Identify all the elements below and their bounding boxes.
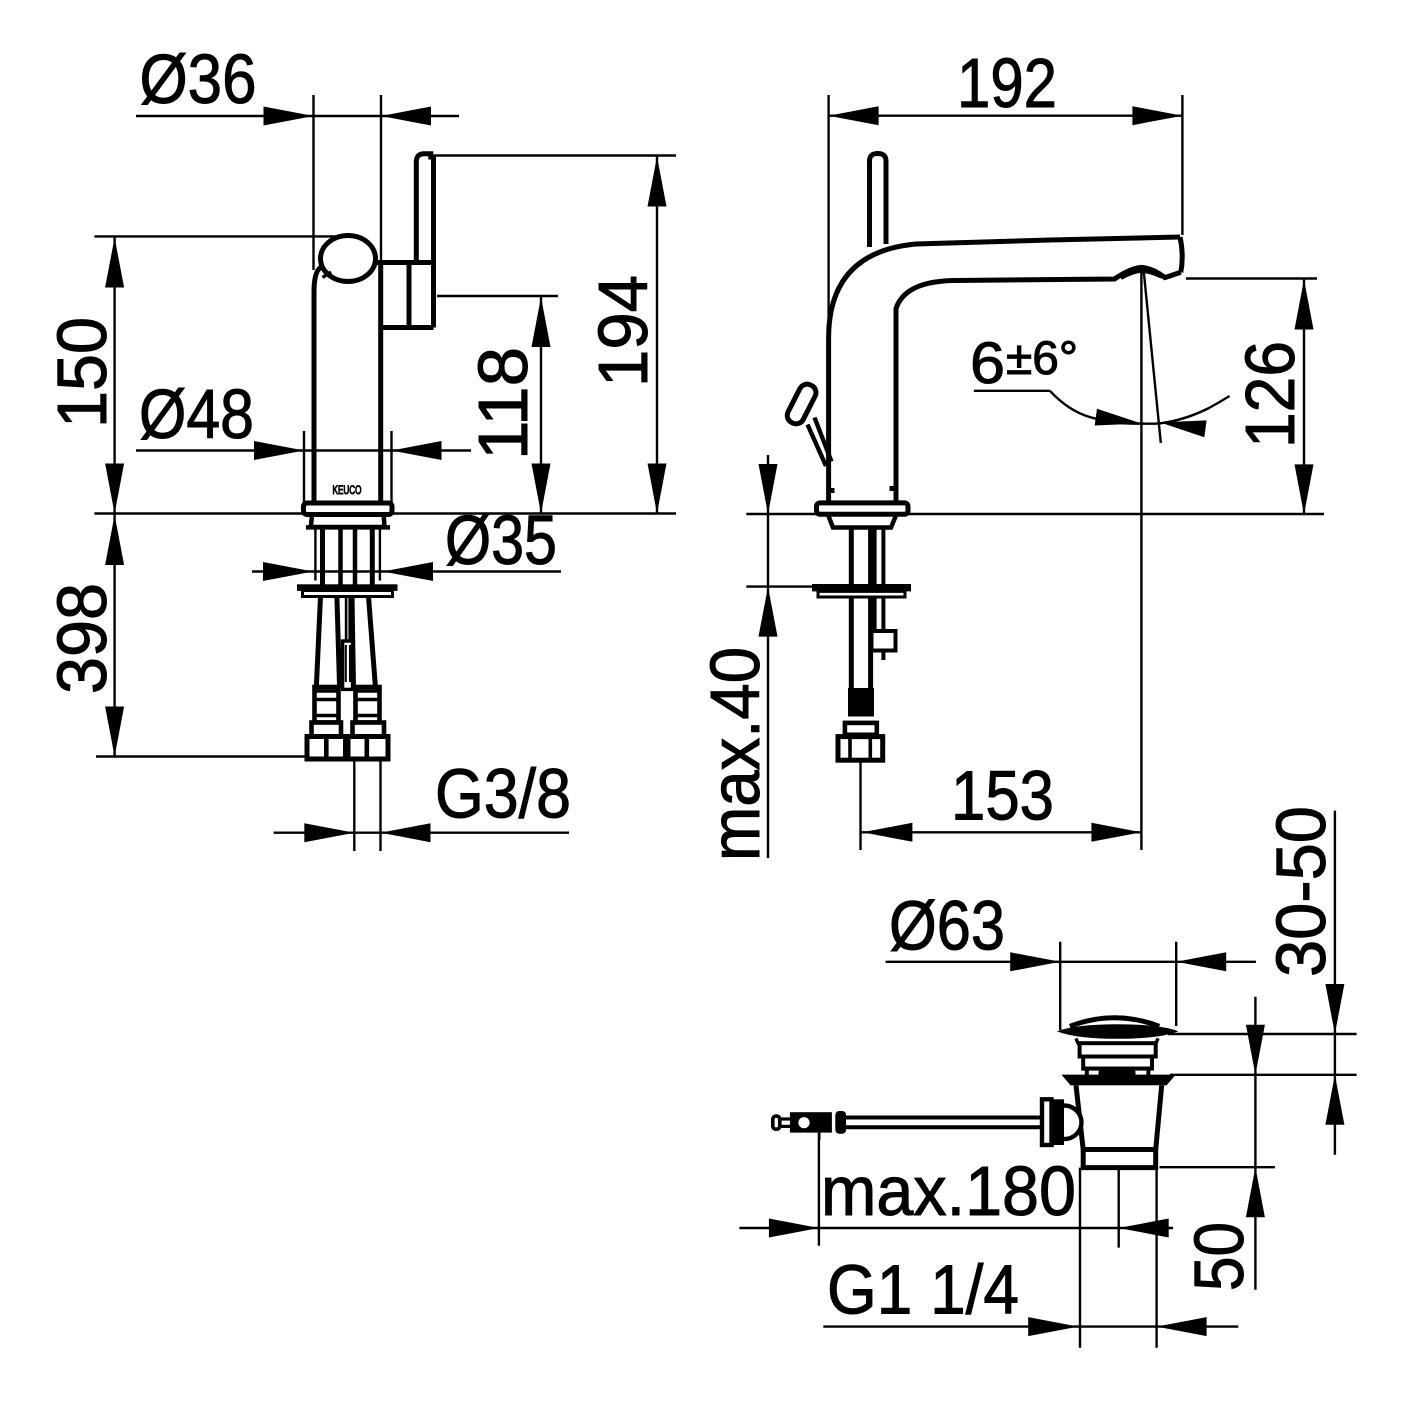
angle leader (974, 390, 1050, 392)
stream vertical line (1140, 270, 1142, 850)
arrow 398 top (105, 515, 124, 565)
dim line Ø48 (136, 449, 471, 451)
handle bar front (416, 154, 433, 328)
angle arc left seg (1092, 418, 1141, 424)
hose right nut (348, 737, 388, 760)
hose right cone (353, 723, 385, 737)
svg-text:30-50: 30-50 (1262, 806, 1340, 977)
spout end face (1180, 237, 1182, 272)
svg-text:192: 192 (957, 44, 1057, 122)
svg-text:118: 118 (464, 347, 542, 460)
svg-text:±6°: ±6° (1006, 331, 1078, 384)
mixer lever grip (784, 381, 818, 426)
ext line Ø35 left (314, 529, 316, 581)
base flange side (817, 503, 909, 514)
drain cap dome (1070, 1018, 1159, 1027)
arrow G3/8 left (304, 823, 354, 842)
dim line 118 (540, 296, 542, 514)
arrow Ø48 left (254, 441, 304, 460)
ext line max180 left (818, 1133, 820, 1246)
ext line Ø63 right (1175, 942, 1177, 1026)
arrow Ø35 left (263, 562, 313, 581)
svg-text:G1 1/4: G1 1/4 (827, 1251, 1019, 1329)
angle arc right seg (1160, 408, 1209, 423)
shank pipe side (849, 529, 854, 688)
drain neck c2 (1083, 1057, 1152, 1069)
drain neck c1 (1080, 1043, 1156, 1056)
handle rod side (870, 154, 887, 248)
spout underside (896, 267, 1181, 487)
svg-text:Ø35: Ø35 (445, 501, 557, 579)
arrow Ø63 right (1176, 952, 1226, 971)
svg-text:Ø48: Ø48 (139, 375, 254, 453)
faucet head dome (321, 236, 376, 282)
pull rod inner (345, 645, 347, 682)
arrow G1 right (1157, 1317, 1207, 1336)
arrow 30-50 bottom (1325, 1075, 1344, 1125)
ext line 118 top (437, 295, 558, 297)
arrow G1 left (1028, 1317, 1078, 1336)
dim line Ø36 (136, 115, 459, 117)
ext line 50 bottom (1160, 1166, 1275, 1168)
drain seal lip (1099, 1069, 1136, 1077)
ext line 194 top (434, 154, 676, 156)
ext line G3/8 right (379, 759, 381, 851)
arrow 118 bottom (532, 464, 551, 514)
lever collar (835, 1111, 846, 1134)
dim line 398 (113, 514, 115, 757)
hose right ferrule (356, 687, 380, 723)
base collar front (311, 517, 385, 527)
ref line hose bottom (96, 755, 308, 757)
arrow 398 bottom (105, 707, 124, 757)
base collar side (828, 514, 897, 527)
body right edge (378, 263, 383, 504)
ext line 30-50 top (1168, 1033, 1357, 1035)
arrow Ø48 right (392, 441, 442, 460)
hose left nut (307, 737, 346, 760)
arrow 50 top (1246, 1025, 1265, 1075)
hose left ferrule (315, 687, 339, 723)
svg-text:6: 6 (970, 331, 1005, 396)
dim line 30-50 (1334, 811, 1336, 1155)
spout outer profile (829, 237, 1180, 488)
dim line 192 (829, 114, 1183, 116)
drain body line (1083, 1148, 1156, 1152)
arrow 50 bottom (1246, 1167, 1265, 1217)
body-to-base left (826, 488, 831, 504)
arrow 30-50 top (1325, 984, 1344, 1034)
ext line max40 bottom (746, 585, 812, 587)
svg-text:50: 50 (1180, 1222, 1258, 1291)
arrow max180 right (1119, 1219, 1169, 1238)
arrow 153 left (862, 823, 912, 842)
drain neck c3 (1087, 1069, 1149, 1077)
arrow max180 left (769, 1219, 819, 1238)
pivot plate (1042, 1099, 1052, 1145)
angle arrow right (1160, 420, 1207, 437)
drain centerline (1117, 1168, 1119, 1248)
arrow 126 top (1295, 280, 1314, 330)
arrow 150 top (105, 238, 124, 288)
svg-text:max.40: max.40 (696, 647, 774, 861)
hose left outer (316, 597, 320, 689)
arrow max40 bottom (759, 587, 778, 637)
svg-text:126: 126 (1231, 341, 1309, 448)
mixer lever stem (808, 425, 827, 467)
arrow 126 bottom (1295, 464, 1314, 514)
arrow 194 top (648, 157, 667, 207)
base step tick left (829, 488, 835, 493)
clamp bracket (872, 631, 896, 651)
hose left inner (337, 597, 340, 689)
ext line Ø36 left (312, 95, 314, 270)
arrow 153 right (1091, 823, 1141, 842)
body left edge (314, 268, 321, 504)
svg-text:G3/8: G3/8 (435, 755, 571, 833)
drain cap under (1076, 1038, 1158, 1043)
svg-text:398: 398 (43, 583, 121, 694)
arrow 150 bottom (105, 464, 124, 514)
hose right inner (352, 597, 354, 689)
pull rod wires (345, 597, 348, 643)
angle arc (1050, 391, 1230, 424)
drain cap rim (1057, 1024, 1179, 1039)
body-to-base right (894, 488, 899, 504)
dim line 194 (656, 156, 658, 514)
ext line G3/8 left (353, 759, 355, 851)
supply nut side (838, 737, 883, 761)
baseline side right (908, 513, 1324, 515)
stream angled line (1144, 270, 1161, 443)
angle arrow left (1095, 409, 1142, 426)
ext line Ø36 right (380, 95, 382, 262)
shank tube right (370, 529, 375, 586)
base flange front (304, 503, 393, 515)
ext line Ø48 right (390, 431, 392, 503)
ext line 30-50 bottom (1170, 1074, 1357, 1076)
threaded section (848, 688, 874, 717)
baseline side left (746, 513, 816, 515)
supply collar side (845, 723, 877, 735)
aerator inner arc (1121, 271, 1162, 278)
ext line G1 right (1155, 1168, 1157, 1348)
arrow Ø36 left (264, 107, 314, 126)
handle hub front (407, 263, 412, 328)
arrow G3/8 right (381, 823, 431, 842)
dome shoulder tick (323, 272, 332, 278)
arrow 118 top (532, 297, 551, 347)
dim line max180 (739, 1227, 1173, 1229)
hose right outer (369, 597, 376, 689)
shank inner left (338, 529, 343, 586)
svg-text:max.180: max.180 (821, 1152, 1076, 1230)
svg-text:153: 153 (951, 757, 1054, 835)
dim line 153 (861, 831, 1142, 833)
ext line Ø63 left (1059, 942, 1061, 1030)
ext line 150 top (94, 235, 344, 237)
dim line 150 (113, 237, 115, 514)
hose left cone (312, 723, 342, 737)
lever neck (780, 1117, 794, 1120)
washer plate lower (303, 591, 393, 597)
lever ext tick (818, 1133, 820, 1140)
arrow Ø35 right (383, 562, 433, 581)
ext line 192 left (827, 95, 829, 330)
pull rod body (343, 641, 353, 689)
arrow 192 left (829, 106, 879, 125)
arrow Ø63 left (1010, 952, 1060, 971)
dim line 50 (1254, 997, 1256, 1290)
baseline front (94, 512, 676, 514)
mounting plate side (812, 584, 911, 591)
pivot ball (1064, 1106, 1082, 1140)
svg-text:150: 150 (43, 317, 121, 428)
svg-text:Ø63: Ø63 (889, 887, 1005, 965)
ext line Ø48 left (303, 431, 305, 503)
ext line G1 left (1079, 1168, 1081, 1348)
lever pin (798, 1117, 809, 1128)
ext line 192 right (1181, 95, 1183, 235)
shank tube left (320, 529, 325, 586)
dim line Ø63 (886, 961, 1256, 963)
lever rod (846, 1116, 1042, 1120)
ext line 126 top (1186, 277, 1317, 279)
pivot block (1052, 1099, 1065, 1145)
dim line 126 (1303, 279, 1305, 515)
arrow Ø36 right (381, 107, 431, 126)
dim line G1 1/4 (823, 1325, 1238, 1327)
svg-text:194: 194 (584, 275, 662, 387)
dim line max40 (767, 455, 769, 858)
ext line Ø35 right (379, 529, 381, 581)
drain flange (1062, 1075, 1176, 1086)
washer plate dark (297, 584, 398, 591)
arrow 192 right (1132, 106, 1182, 125)
dim line Ø35 (252, 570, 561, 572)
drain tail (1083, 1150, 1156, 1168)
arrow 194 bottom (648, 464, 667, 514)
drain body cone (1076, 1085, 1162, 1149)
mounting stud (873, 529, 877, 647)
svg-text:Ø36: Ø36 (140, 40, 257, 118)
shank inner right (353, 529, 358, 586)
arrow max40 top (759, 464, 778, 514)
ext line 153 left (859, 761, 861, 850)
lever clevis (790, 1112, 832, 1132)
base step tick right (890, 486, 896, 491)
svg-text:KEUCO: KEUCO (333, 485, 362, 497)
lever end cap (773, 1116, 780, 1129)
dim line G3/8 (274, 832, 569, 834)
